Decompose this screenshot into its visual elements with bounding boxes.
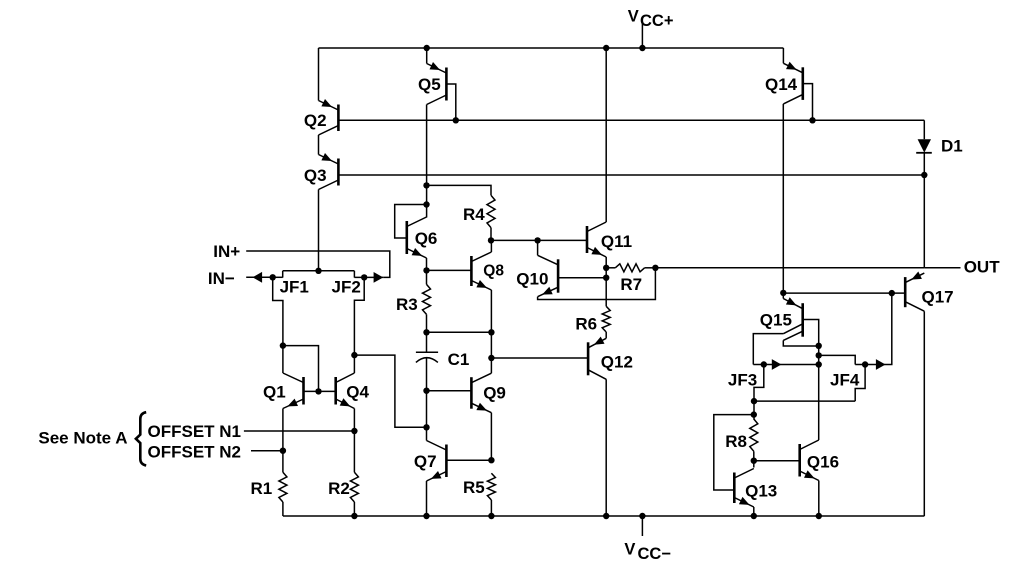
junction bottom rail / R2 [351,513,357,519]
wire Q12 base feed [491,357,588,359]
junction top rail / Q11 collector [603,45,609,51]
svg-text:Q4: Q4 [346,383,369,402]
junction JF3 gate [761,361,767,367]
junction Q4 collector / Q7 collector [423,424,429,430]
label OFFSET N1 [148,422,242,441]
wire Q1-Q4 base line [304,390,336,392]
resistor R6 [602,306,610,332]
wire bias column [818,346,820,440]
label R4 [463,205,485,224]
junction Q11 emitter / R7 left [603,265,609,271]
wire Q6 base loop [395,205,427,239]
svg-text:V: V [624,541,635,559]
junction Q10 base / R6 top [603,275,609,281]
label Q5 [418,75,441,94]
junction drains / R8 top [751,398,757,404]
label Q14 [765,75,798,94]
transistor Q2 [319,99,339,135]
junction top rail / VCC+ stem [639,45,645,51]
wire JF3 drain [754,365,764,402]
wire R4 top feed [427,185,492,195]
junction Q9 collector / Q12 base feed [488,355,494,361]
wire R4 bottom lead [490,228,492,241]
jfet JF2 gate arrow (P-channel) [374,272,384,283]
brace note A [136,412,146,465]
junction R4 / Q8 collector / Q11 base feed [488,237,494,243]
junction R8 bottom / Q16 base / Q13 collector [751,458,757,464]
label R6 [575,314,597,333]
label JF3 [728,371,757,390]
svg-text:Q10: Q10 [516,269,548,288]
wire Q8 emitter down [490,290,492,358]
diode D1 [916,120,932,175]
transistor Q16 [800,440,819,481]
wire Q5 emitter to top rail [426,48,428,64]
transistor Q7 [427,441,447,482]
label See Note A [38,428,127,447]
capacitor C1 top plate [416,332,438,352]
junction JF4 gate [862,361,868,367]
label R1 [251,479,273,498]
svg-text:JF4: JF4 [830,371,860,390]
wire IN+ line [246,251,390,277]
junction C1 / Q9 base [423,388,429,394]
svg-text:Q3: Q3 [304,166,327,185]
label IN- [208,269,235,288]
wire Q11 collector up to top rail [605,48,607,222]
svg-text:Q9: Q9 [483,383,506,402]
wire JF3 gate line [753,364,818,366]
svg-text:OFFSET N2: OFFSET N2 [148,443,242,462]
svg-text:V: V [628,8,639,26]
wire Q1 collector up [282,346,284,373]
label OUT [964,258,1001,277]
wire OUT stub [924,267,960,269]
transistor Q10 [538,255,559,296]
svg-text:R2: R2 [328,479,350,498]
wire R6 to Q12 emitter [605,332,607,338]
wire link R3-Q8 emitter [427,331,492,333]
wire Q2 emitter to top rail [318,48,320,101]
label R3 [396,295,418,314]
junction rail1 / Q14 base [809,117,815,123]
junction rail2 / D1 cathode [921,172,927,178]
wire JF4 drain [855,365,865,402]
svg-text:C1: C1 [448,350,470,369]
wire Q10 collector up [537,240,539,255]
svg-text:OUT: OUT [964,258,1001,277]
wire Q3 collector down to JFET sources [318,190,320,271]
label IN+ [213,242,240,261]
resistor R8 [750,419,758,451]
wire IN- line [246,276,273,278]
wire VCC+ top rail [319,47,784,49]
svg-text:IN+: IN+ [213,242,240,261]
svg-text:Q14: Q14 [765,75,798,94]
resistor R4 [487,195,495,227]
transistor Q8 [471,252,491,290]
junction bottom rail / R5 [488,513,494,519]
label JF4 [830,371,860,390]
label R5 [463,478,485,497]
transistor Q15 collector 2 [783,331,818,346]
junction Q9 emitter / Q7 base / R5 [488,457,494,463]
junction top rail / Q5 emitter [424,45,430,51]
junction bottom rail / Q7 emitter [423,513,429,519]
transistor Q15 bar [801,303,804,337]
wire C1 node down to Q7 [426,391,428,428]
transistor Q6 [407,217,427,258]
wire JF4 gate feed [819,355,856,364]
label Q7 [414,452,437,471]
label Q1 [263,383,286,402]
svg-text:Q2: Q2 [304,111,327,130]
wire Q5 base to rail1 [446,84,455,120]
wire R1 bottom lead [282,502,284,516]
resistor R2 [350,472,358,502]
label JF1 [280,278,309,297]
svg-text:CC+: CC+ [640,12,673,30]
label Q17 [922,288,954,307]
junction offset N2 / Q1 emitter [280,448,286,454]
junction bottom rail / Q13 emitter [751,513,757,519]
svg-text:Q11: Q11 [601,232,632,251]
wire Q13 collector up [753,461,755,468]
svg-text:JF3: JF3 [728,371,757,390]
junction Q15 emitter node [780,290,786,296]
junction Q10 collector on base feed [534,237,540,243]
svg-text:R5: R5 [463,478,485,497]
label OFFSET N2 [148,443,242,462]
wire Q11 emitter down [605,257,607,268]
transistor Q14 [783,62,802,104]
junction column / JF4 gate feed [816,352,822,358]
label Q12 [601,353,633,372]
junction bottom rail / Q12 collector [603,513,609,519]
label Q10 [516,269,548,288]
svg-text:R3: R3 [396,295,418,314]
wire Q13 emitter down [753,507,755,516]
wire Q13 base loop [714,415,754,490]
wire Q1 emitter down to R1 [282,409,284,473]
svg-text:R7: R7 [620,275,642,294]
svg-text:Q16: Q16 [807,453,839,472]
wire VCC- bottom rail [283,515,925,517]
wire R3 bottom lead [426,314,428,332]
transistor Q15 emitter [783,293,802,309]
node VCC- stem [641,516,643,536]
junction R3 / C1 / link to Q8 emitter [423,329,429,335]
wire R2 bottom lead [353,502,355,516]
transistor Q9 [471,373,491,413]
wire Q9 emitter down [490,413,492,461]
label VCC- [624,541,671,564]
transistor Q12 [588,337,606,380]
svg-text:R1: R1 [251,479,273,498]
transistor Q5 [427,62,447,105]
transistor Q15 base jog [803,320,819,346]
junction Q6 emitter / R3 / Q8 base [423,267,429,273]
wire Q14 collector down to Q15 [782,104,784,293]
junction Q17 base / JF4 gate feed [889,290,895,296]
wire JF4 gate line [855,293,892,364]
jfet JF1 gate arrow (P-channel) [253,272,263,283]
wire Q10 emitter loop [538,268,656,300]
label R2 [328,479,350,498]
transistor Q1 [283,373,304,409]
wire bias rail 2 (Q3 base line) [338,174,924,176]
resistor R1 [279,472,287,502]
label R7 [620,275,642,294]
wire Q14 emitter from top rail [782,48,784,63]
wire output line [655,267,924,269]
svg-text:Q12: Q12 [601,353,633,372]
transistor Q17 [905,272,924,312]
junction bottom rail / VCC- stem [639,513,645,519]
label Q15 [760,310,792,329]
jfet JF3 gate arrow [772,359,782,370]
svg-text:OFFSET N1: OFFSET N1 [148,422,242,441]
label Q3 [304,166,327,185]
svg-text:JF2: JF2 [332,278,361,297]
junction Q15 base/collector2 [816,343,822,349]
jfet JF1 [273,271,283,278]
svg-text:Q1: Q1 [263,383,286,402]
label D1 [941,137,963,156]
wire Q16 emitter down [818,481,820,517]
jfet JF4 gate arrow [876,359,886,370]
transistor Q4 [336,373,355,409]
svg-text:IN−: IN− [208,269,235,288]
wire JF1/JF2 source line [283,270,355,272]
junction common bases [315,388,321,394]
wire Q16 base line [754,460,800,462]
junction Q6 collector node [423,201,429,207]
junction Q5 collector / R4 feed [423,182,429,188]
wire Q4 emitter down to R2 [353,409,355,473]
wire R5 bottom lead [490,500,492,516]
label Q11 [601,232,632,251]
wire Q12 collector down [605,379,607,516]
svg-text:R6: R6 [575,314,597,333]
wire Q7 base line [446,459,491,461]
wire Q5 collector down [426,105,428,218]
wire Q9 collector up [490,358,492,373]
label Q4 [346,383,369,402]
svg-text:Q6: Q6 [415,229,438,248]
wire Q14 base to rail1 [803,84,813,121]
wire Q9 base line [427,390,472,392]
label Q13 [745,482,777,501]
wire bias rail 1 (Q2 base line) [338,119,924,121]
svg-text:See Note A: See Note A [38,428,127,447]
junction sources / Q3 collector [315,268,321,274]
svg-text:D1: D1 [941,137,963,156]
junction JF1 gate [270,274,276,280]
svg-text:Q17: Q17 [922,288,954,307]
wire OFFSET N1 line [244,430,355,432]
svg-text:Q5: Q5 [418,75,441,94]
wire Q4 collector up [353,355,355,373]
wire Q6 emitter down [426,258,428,270]
label VCC+ [628,8,674,30]
svg-text:R8: R8 [725,432,747,451]
wire Q7 collector up [426,427,428,440]
wire D1 to output node [923,175,925,268]
wire Q1 collector to bases [283,346,319,392]
node VCC+ stem [641,24,643,48]
junction R8 top / Q13 base loop [751,411,757,417]
wire JF3-JF4 drain link [754,400,855,402]
svg-text:JF1: JF1 [280,278,309,297]
junction offset N1 / Q4 emitter [351,428,357,434]
junction R7 right / output line [652,265,658,271]
label Q2 [304,111,327,130]
wire Q11 base feed [491,239,587,241]
junction Q8 emitter / R3 link [488,329,494,335]
wire JF1 drain [273,277,283,345]
junction column / JF3 gate line [816,361,822,367]
transistor Q15 collector 1 [753,324,802,365]
resistor R5 [487,473,495,500]
junction rail1 / Q5 base [453,117,459,123]
wire Q8 base line [427,269,472,271]
label Q16 [807,453,839,472]
label Q9 [483,383,506,402]
label R8 [725,432,747,451]
wire Q10 base line [558,277,606,279]
jfet JF2 [354,271,383,278]
wire Q7 emitter down [426,481,428,516]
wire JF2 drain [354,277,364,355]
junction JF1 drain / Q1 collector [280,342,286,348]
capacitor C1 bottom plate [416,358,438,391]
wire R7 R6 node link [605,268,607,307]
label C1 [448,350,470,369]
label Q8 [483,263,504,280]
wire R8 node link [753,401,755,419]
label Q6 [415,229,438,248]
wire Q2 collector to Q3 emitter [318,135,320,155]
transistor Q11 [587,222,606,257]
junction JF2 gate [361,274,367,280]
wire Q8 collector up to R4 node [490,240,492,252]
svg-text:Q15: Q15 [760,310,792,329]
wire R8 bottom lead [753,451,755,460]
transistor Q13 [734,469,754,508]
junction bottom rail / Q16 emitter [816,513,822,519]
label JF2 [332,278,361,297]
resistor R3 [423,284,431,314]
wire Q4 collector to Q7 node [354,355,426,427]
svg-text:R4: R4 [463,205,485,224]
wire Q17 collector down [923,311,925,516]
resistor R7 [606,264,655,272]
junction JF2 drain / Q4 collector [351,352,357,358]
transistor Q3 [319,153,339,190]
svg-text:Q8: Q8 [483,263,504,280]
wire OFFSET N2 line [251,450,283,452]
svg-text:Q13: Q13 [745,482,777,501]
svg-text:Q7: Q7 [414,452,437,471]
wire Q17 base line [783,292,905,294]
svg-text:CC−: CC− [638,545,671,563]
wire R3 top lead [426,270,428,284]
